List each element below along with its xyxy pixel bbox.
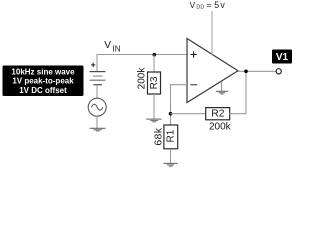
op-amp U1 (187, 39, 238, 103)
wire R2 right to feedback column (229, 113, 246, 115)
AC source V2 (10kHz sine) (88, 98, 106, 116)
ground op-amp (216, 91, 228, 94)
svg-text:68k: 68k (153, 127, 165, 145)
svg-text:5v: 5v (214, 0, 226, 10)
ground below R3 (146, 119, 161, 122)
svg-text:DD: DD (196, 5, 204, 11)
svg-text:=: = (207, 0, 212, 10)
label box V1 (272, 50, 292, 64)
svg-text:200k: 200k (137, 67, 148, 90)
node junction dot V_IN / R3 (153, 53, 157, 57)
wire V_DD supply down to op-amp (211, 11, 213, 55)
wire battery bottom to sine source (96, 85, 98, 99)
terminal V1 (open circle) (276, 69, 281, 74)
node junction dot output/feedback (244, 70, 248, 74)
wire op-amp inverting input (171, 85, 188, 125)
resistor R3 (148, 72, 161, 94)
svg-text:1V peak-to-peak: 1V peak-to-peak (12, 77, 74, 86)
svg-text:R2: R2 (211, 108, 225, 119)
ground below source (90, 128, 106, 131)
wire V_IN node down to R3 (153, 55, 155, 73)
label V_DD = 5v (190, 0, 226, 11)
wire sine source to ground (96, 116, 98, 128)
resistor R1 (164, 125, 178, 149)
svg-text:10kHz sine wave: 10kHz sine wave (11, 67, 75, 76)
node junction dot feedback/R1 (169, 112, 173, 116)
svg-text:1V DC offset: 1V DC offset (19, 86, 67, 95)
svg-text:V1: V1 (276, 52, 289, 63)
wire R1 bottom to ground (170, 149, 172, 163)
svg-text:200k: 200k (209, 122, 232, 133)
wire feedback column up to output (245, 71, 247, 113)
wire junction to R2 left (171, 113, 207, 115)
svg-text:R3: R3 (149, 76, 160, 89)
battery B1 (1V DC offset) (90, 63, 106, 85)
wire source column top (V_IN corner down to battery) (96, 55, 98, 72)
svg-text:V: V (190, 0, 196, 10)
svg-text:R1: R1 (166, 129, 177, 142)
svg-text:IN: IN (112, 44, 121, 53)
wire R3 bottom to ground (153, 94, 155, 119)
wire V_IN horizontal from source to op-amp + input (97, 54, 188, 56)
svg-text:V: V (104, 40, 111, 51)
node V_IN label (104, 40, 121, 53)
wire op-amp ground pin (221, 82, 223, 92)
resistor R2 (206, 108, 230, 120)
ground below R1 (163, 163, 177, 166)
label box: source description (3, 66, 84, 97)
wire op-amp output to terminal (238, 70, 276, 72)
